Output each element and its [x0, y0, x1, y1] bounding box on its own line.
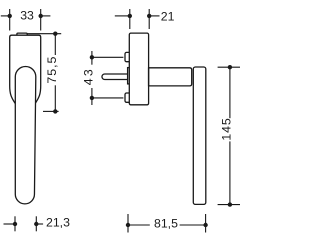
- side view: rosette plate: [129, 33, 148, 105]
- side view: spindle collar: [128, 68, 131, 84]
- svg-text:43: 43: [82, 67, 96, 85]
- dim 75,5 end dots: [53, 32, 57, 36]
- side view: grip bar: [193, 67, 206, 204]
- dim 43 dimension line: [91, 51, 93, 65]
- dim 33 witness lines: [9, 9, 11, 31]
- dim 21 witness lines: [129, 9, 131, 29]
- side view: bottom screw cover: [125, 93, 131, 102]
- svg-text:75,5: 75,5: [45, 56, 59, 84]
- svg-text:21,3: 21,3: [46, 216, 70, 230]
- dim 43 extension lines: [92, 56, 123, 58]
- dim 21 dimension line: [115, 15, 130, 17]
- dim 21,3 end dots: [13, 222, 17, 226]
- dim 145 end dots: [228, 65, 232, 69]
- dim 75,5 dimension line: [54, 34, 56, 55]
- side view: top screw cover: [125, 52, 131, 61]
- dim 81,5 dimension line: [128, 224, 150, 226]
- svg-text:81,5: 81,5: [154, 216, 178, 230]
- side view: plate edge over neck: [148, 68, 150, 86]
- svg-text:33: 33: [20, 9, 34, 23]
- side view: square spindle: [102, 74, 128, 80]
- dim 21,3 witness lines: [14, 216, 16, 231]
- dim 75,5 extension lines: [27, 33, 61, 35]
- svg-text:145: 145: [219, 117, 233, 140]
- front view: grip lever: [15, 67, 36, 204]
- front view: rosette plate: [10, 35, 41, 111]
- svg-text:21: 21: [161, 10, 175, 24]
- dim 145 dimension line: [229, 67, 231, 118]
- side view: neck: [149, 68, 192, 86]
- dim 21 end dots: [128, 14, 132, 18]
- dim 21,3 dimension line: [4, 223, 16, 225]
- dim 33 end dots: [8, 14, 12, 18]
- dim 43 end dots: [90, 55, 94, 59]
- dim 81,5 witness lines: [127, 214, 129, 233]
- dim 81,5 end dots: [126, 223, 130, 227]
- front view: rosette cap tab: [17, 33, 27, 38]
- dim 33 dimension line: [1, 15, 10, 17]
- dim 145 extension lines: [218, 66, 240, 68]
